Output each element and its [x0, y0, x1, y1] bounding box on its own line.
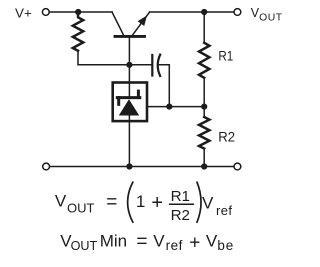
- formula VOUT Min = Vref + Vbe: [60, 232, 234, 254]
- svg-text:+: +: [151, 192, 163, 214]
- svg-text:R1: R1: [171, 188, 190, 205]
- svg-text:OUT: OUT: [71, 239, 98, 253]
- wire R1 bottom lead: [203, 78, 205, 107]
- zener D1 cathode bar: [117, 96, 140, 99]
- transistor Q1 emitter lead: [132, 12, 150, 37]
- svg-text:R2: R2: [218, 129, 235, 145]
- svg-text:OUT: OUT: [67, 201, 95, 216]
- wire ground rail: [50, 166, 234, 168]
- svg-text:+: +: [189, 233, 200, 254]
- wire capacitor to feedback node: [159, 65, 169, 107]
- terminal ground left: [43, 163, 50, 170]
- svg-text:R1: R1: [218, 48, 233, 64]
- zener D1 cathode left hook: [117, 98, 120, 105]
- junction R2-ground: [201, 163, 207, 169]
- formula VOUT = (1 + R1/R2)Vref: [55, 182, 232, 224]
- wire top rail left (V+ terminal to Q1 collector): [50, 11, 112, 13]
- svg-text:V: V: [202, 193, 214, 212]
- junction VOUT node: [201, 9, 207, 15]
- zener D1 cathode right hook: [137, 91, 140, 98]
- transistor Q1 emitter arrow: [138, 16, 147, 27]
- wire top rail right (Q1 emitter to VOUT terminal): [150, 11, 234, 13]
- junction capacitor-feedback: [166, 104, 172, 110]
- terminal VOUT: [234, 9, 241, 16]
- junction R1-R2 divider: [201, 104, 207, 110]
- wire resistor bottom to base node: [78, 51, 152, 65]
- svg-text:ref: ref: [166, 238, 183, 253]
- transistor Q1 base bar: [115, 35, 145, 38]
- terminal ground right: [234, 163, 241, 170]
- svg-text:V: V: [206, 232, 218, 251]
- wire reference pin to divider node: [147, 106, 204, 108]
- junction base node: [126, 62, 132, 68]
- zener D1 triangle: [119, 99, 139, 115]
- svg-text:V: V: [55, 192, 67, 211]
- resistor R2: [199, 117, 209, 149]
- svg-text:ref: ref: [216, 203, 232, 218]
- junction zener-ground: [126, 163, 132, 169]
- svg-text:=: =: [136, 232, 147, 253]
- svg-text:be: be: [217, 238, 234, 253]
- svg-text:R2: R2: [171, 207, 190, 224]
- svg-text:V: V: [153, 232, 165, 251]
- capacitor C (curved plate): [158, 55, 161, 76]
- wire zener cathode lead: [128, 65, 130, 97]
- wire Q1 base lead down: [128, 38, 130, 65]
- svg-text:Min: Min: [100, 232, 127, 251]
- reference D1 box: [113, 83, 147, 122]
- svg-text:1: 1: [136, 192, 145, 211]
- svg-text:=: =: [106, 192, 117, 213]
- wire R1 top lead: [203, 12, 205, 43]
- wire zener anode lead to ground rail: [128, 116, 130, 167]
- capacitor C (left plate): [151, 55, 153, 76]
- wire R2 top lead: [203, 107, 205, 117]
- junction top-left node: [75, 9, 81, 15]
- terminal V+: [42, 9, 49, 16]
- transistor Q1 collector lead: [112, 12, 124, 35]
- wire R2 bottom lead: [203, 149, 205, 167]
- resistor bias (left, unlabeled): [73, 12, 83, 51]
- resistor R1: [199, 43, 209, 78]
- svg-text:V+: V+: [15, 6, 32, 21]
